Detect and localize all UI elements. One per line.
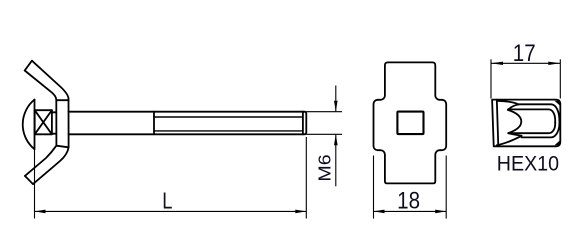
head front cross outline — [373, 62, 446, 183]
18 left arrowhead — [374, 210, 385, 214]
socket outer band top and cap — [519, 104, 560, 123]
L right extension line — [305, 137, 307, 219]
shank gap lines — [52, 111, 56, 113]
strap band left edge — [55, 100, 57, 146]
head top flange inner line — [497, 100, 499, 147]
svg-text:HEX10: HEX10 — [497, 152, 559, 176]
M6 bottom arrowhead — [334, 134, 338, 145]
lower tooth upper edge — [508, 133, 521, 136]
square neck with X — [35, 110, 52, 134]
cusp wedge top right — [555, 101, 561, 106]
thread start line — [153, 112, 155, 135]
thread minor top line — [154, 116, 302, 118]
M6 dim line lower — [335, 134, 337, 186]
L dimension line — [35, 210, 307, 212]
svg-text:M6: M6 — [315, 154, 335, 181]
17 dimension line — [491, 62, 560, 64]
M6 bottom extension line — [306, 133, 342, 135]
upper tooth upper edge — [498, 101, 519, 105]
bottom wing tip cap — [25, 176, 33, 184]
17 left arrowhead — [491, 62, 503, 65]
bottom wing inner edge — [25, 146, 56, 176]
strap band right edge — [68, 99, 70, 148]
top wing outer edge — [32, 61, 69, 99]
svg-text:17: 17 — [513, 39, 536, 66]
17 right extension line — [559, 59, 561, 98]
17 left extension line — [490, 59, 492, 98]
bottom wing outer edge — [33, 147, 69, 184]
lower tooth lower edge — [497, 136, 522, 145]
socket outer band bottom and cap — [522, 122, 560, 137]
thread tip end cap — [303, 112, 306, 135]
head front center square hole — [397, 112, 423, 135]
17 right arrowhead — [548, 62, 560, 65]
socket inner band top line — [508, 109, 555, 123]
18 right arrowhead — [435, 210, 446, 214]
thread minor bottom line — [154, 130, 302, 132]
18 right extension line — [445, 156, 447, 219]
18 left extension line — [373, 156, 375, 219]
cusp wedge bottom right — [555, 140, 561, 145]
M6 dim line upper — [335, 86, 337, 112]
L left extension line — [34, 149, 36, 218]
top wing cap — [25, 61, 32, 71]
svg-text:L: L — [162, 189, 172, 215]
strap band bottom edge — [56, 146, 68, 148]
socket inner band bottom line — [508, 122, 555, 133]
L right arrowhead — [295, 210, 306, 214]
M6 top extension line — [306, 111, 342, 113]
svg-text:18: 18 — [397, 187, 420, 214]
shank bottom line — [69, 133, 303, 135]
thread tip chamfer line — [302, 112, 304, 135]
top wing inner edge — [25, 71, 57, 100]
dome chord line — [34, 100, 36, 150]
upper tooth lower edge — [508, 104, 519, 110]
shank top line — [69, 111, 303, 113]
strap band top edge — [56, 99, 68, 101]
L left arrowhead — [35, 210, 46, 214]
18 dimension line — [374, 210, 447, 212]
M6 top arrowhead — [334, 101, 338, 112]
dome head arc — [23, 100, 35, 150]
head top outer outline — [492, 100, 560, 147]
dome bulge profile — [508, 110, 521, 133]
